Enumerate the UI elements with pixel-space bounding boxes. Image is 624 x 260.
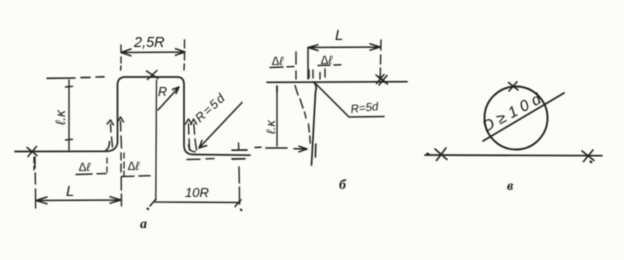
figure v: circle loop — [485, 87, 548, 150]
figure b: delta-l underline first — [270, 66, 294, 69]
svg-text:∆ℓ: ∆ℓ — [79, 160, 91, 174]
figure v: right cross — [582, 150, 594, 162]
svg-text:ℓ.κ: ℓ.κ — [264, 119, 278, 134]
svg-text:R: R — [158, 85, 167, 99]
svg-text:а: а — [140, 217, 147, 232]
figure a: right foot pen echo — [189, 145, 196, 152]
svg-text:10R: 10R — [185, 185, 209, 200]
figure b: top bar line — [267, 81, 407, 84]
svg-text:ℓ.κ: ℓ.κ — [53, 109, 68, 125]
figure b: extension dashes above top line — [296, 70, 320, 79]
figure a: dotted verticals near delta-l — [107, 153, 124, 176]
figure a: L dimension left extension dotted — [34, 157, 37, 208]
figure a: bar baseline left segment — [15, 150, 107, 152]
svg-text:D≥10d: D≥10d — [480, 89, 548, 136]
figure b: cross at L extension bottom — [376, 75, 385, 84]
figure b: bar end parallel tick — [314, 144, 316, 157]
svg-text:L: L — [66, 183, 74, 200]
figure a: 2,5R dimension line with arrows — [121, 49, 185, 56]
svg-text:L: L — [335, 27, 343, 44]
figure b: bent-down bar leg — [312, 82, 317, 165]
svg-text:2,5R: 2,5R — [133, 35, 165, 51]
figure b: lk dimension line — [276, 86, 278, 146]
svg-text:R=5d: R=5d — [350, 101, 380, 116]
figure a: cross at hat top center — [147, 71, 159, 80]
svg-text:∆ℓ: ∆ℓ — [272, 54, 284, 68]
figure a: R radius arrow — [158, 87, 179, 110]
figure a: 10R dimension end dots — [148, 209, 242, 211]
svg-text:в: в — [507, 179, 514, 194]
figure v: cross at circle top — [509, 82, 519, 91]
figure a: cross mark at left bar end — [27, 147, 37, 157]
svg-text:∆ℓ: ∆ℓ — [128, 159, 140, 173]
figure v: baseline — [425, 154, 602, 157]
figure a: left leg dashed bend indicators with arrows — [107, 120, 114, 147]
svg-text:б: б — [339, 178, 347, 193]
figure a: bent bar hat profile — [107, 77, 250, 155]
figure a: lk dimension line vertical — [66, 80, 73, 150]
figure a: 10R right extension sketchy — [239, 143, 240, 204]
figure a: L dimension line with arrows — [36, 197, 121, 204]
figure a: delta-l underline left dashed — [76, 174, 106, 175]
figure b: lk bottom line with arrow to bar — [255, 146, 307, 152]
figure a: dotted extension below left cross — [33, 157, 35, 170]
figure a: top-left reference line — [47, 77, 104, 79]
figure a: 2,5R extension line right dashed — [183, 40, 186, 70]
figure b: small ticks below — [309, 69, 325, 78]
figure b: L right extension dashed — [379, 40, 382, 77]
figure a: right leg dashed bend indicators with arrows — [186, 119, 192, 150]
figure a: bar end double tick marks — [232, 150, 247, 159]
figure b: delta-l underline second — [318, 64, 341, 67]
figure a: left foot pen echo — [106, 142, 110, 151]
figure a: L dimension right extension dotted — [120, 153, 123, 206]
figure a: 2,5R extension line left dashed — [120, 45, 122, 70]
figure v: right end dot — [589, 160, 592, 163]
figure a: R=5d leader arrow — [199, 103, 242, 149]
figure v: diameter line — [483, 93, 564, 141]
svg-text:R=5d: R=5d — [192, 90, 228, 125]
figure b: L dimension line with bracket — [308, 44, 380, 69]
figure b: lk top tick — [276, 86, 278, 92]
figure a: center extension line — [155, 80, 158, 200]
figure b: R=5d leader — [316, 84, 384, 117]
figure b: cross on line right — [379, 76, 388, 86]
figure v: left end dot — [426, 152, 429, 155]
figure b: delta-l tick first — [295, 52, 297, 64]
figure a: dash under right baseline — [187, 158, 214, 161]
figure b: dashed pre-bend diagonal — [295, 86, 310, 144]
figure a: 10R dimension line — [150, 199, 241, 207]
figure a: delta-l underline right dashed — [122, 175, 150, 178]
figure v: left cross — [435, 148, 447, 161]
